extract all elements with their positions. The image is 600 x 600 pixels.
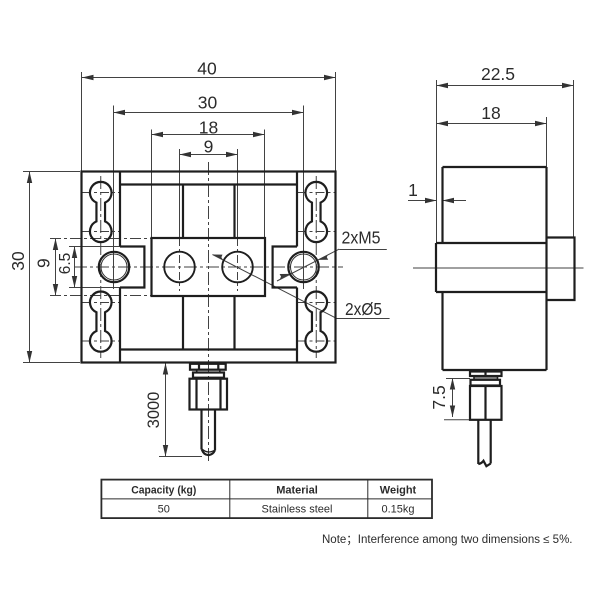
svg-text:3000: 3000 [145,392,163,429]
svg-text:50: 50 [158,504,170,516]
svg-text:9: 9 [33,258,53,268]
svg-text:18: 18 [199,118,218,138]
svg-text:0.15kg: 0.15kg [381,504,414,516]
svg-text:30: 30 [198,93,218,113]
svg-text:2xM5: 2xM5 [342,228,381,248]
svg-text:Capacity (kg): Capacity (kg) [131,485,196,497]
svg-text:Stainless steel: Stainless steel [262,504,333,516]
svg-text:30: 30 [8,251,28,271]
svg-text:18: 18 [481,103,500,123]
svg-text:2xØ5: 2xØ5 [345,299,382,319]
svg-text:1: 1 [408,180,418,200]
svg-text:Material: Material [276,485,318,497]
svg-text:7.5: 7.5 [429,385,449,409]
svg-text:Note；Interference among two di: Note；Interference among two dimensions ≤… [322,534,573,546]
svg-text:22.5: 22.5 [481,64,515,84]
svg-text:40: 40 [197,59,217,79]
svg-text:6.5: 6.5 [57,253,74,275]
svg-text:Weight: Weight [380,485,417,497]
svg-text:9: 9 [204,137,214,157]
